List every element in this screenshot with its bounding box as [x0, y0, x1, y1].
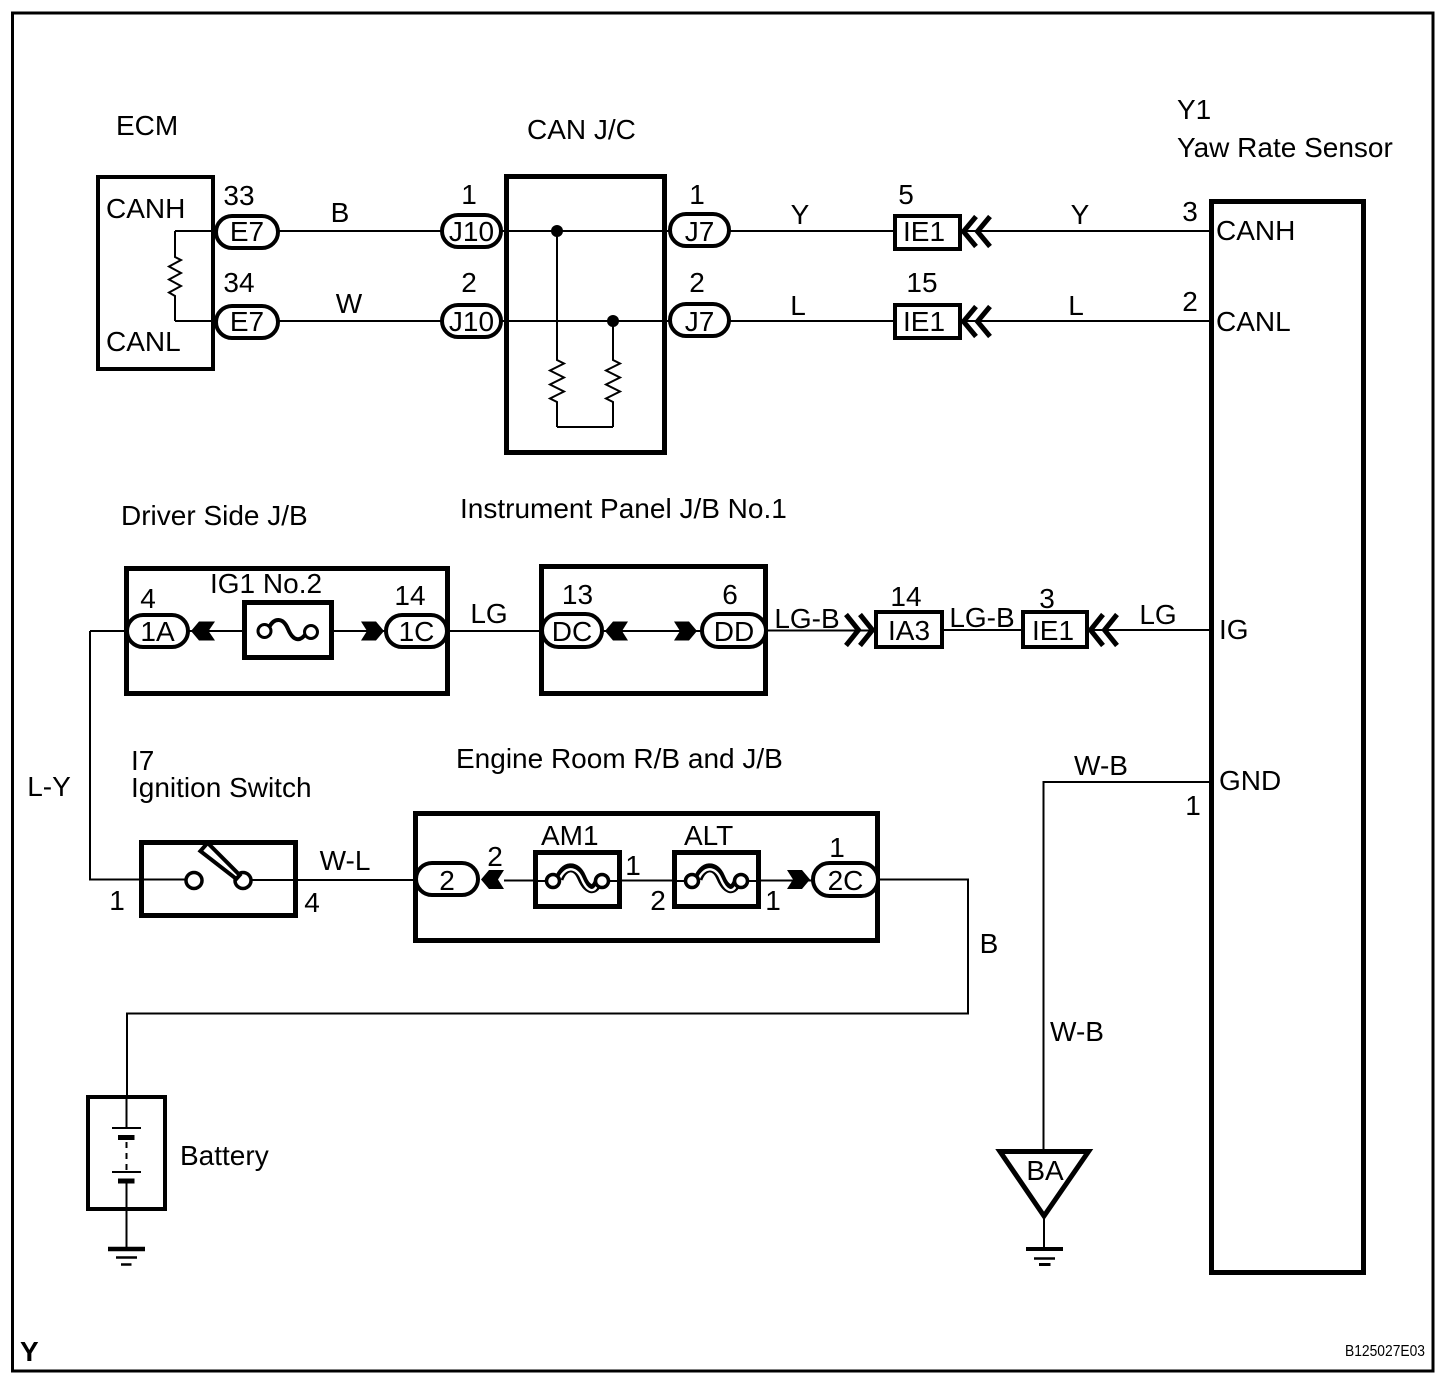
wire joining resistor bottoms [557, 426, 613, 428]
svg-text:W: W [336, 288, 363, 319]
switch contact circle left [186, 873, 202, 889]
engine room R/B and J/B box [416, 814, 878, 941]
battery cell symbol [112, 1097, 141, 1247]
ground connector BA triangle [1000, 1152, 1089, 1217]
wire W : E7 to J10 [278, 320, 442, 322]
svg-text:15: 15 [906, 267, 937, 298]
svg-text:W-B: W-B [1074, 750, 1128, 781]
wire W-L : switch to engine room [251, 879, 418, 881]
wire L-Y riser from 1A down to ignition switch [90, 631, 188, 880]
connector IE1 pin 3 [1023, 583, 1087, 647]
fuse IG1 No.2 box [245, 603, 332, 658]
arrow (female) pointing left at DC [605, 622, 628, 641]
svg-text:3: 3 [1039, 583, 1055, 614]
svg-text:ALT: ALT [684, 820, 733, 851]
terminating resistor 2 in CAN J/C [606, 321, 620, 427]
connector J7 pin 2 [670, 267, 729, 337]
svg-text:Battery: Battery [180, 1140, 269, 1171]
svg-text:IG: IG [1219, 614, 1249, 645]
ALT fusible link element [676, 868, 758, 890]
svg-text:CANH: CANH [106, 193, 185, 224]
svg-text:2: 2 [1182, 286, 1198, 317]
switch lever [200, 843, 239, 879]
connector 1C pin 14 [386, 580, 447, 647]
svg-text:2: 2 [650, 885, 666, 916]
svg-text:B: B [980, 928, 999, 959]
connector IA3 pin 14 [876, 581, 942, 647]
svg-text:14: 14 [890, 581, 921, 612]
svg-text:Engine Room R/B and J/B: Engine Room R/B and J/B [456, 743, 783, 774]
svg-text:1: 1 [461, 179, 477, 210]
svg-text:1: 1 [625, 850, 641, 881]
switch contact circle right [235, 873, 251, 889]
svg-text:1: 1 [765, 885, 781, 916]
wire CANH through CAN J/C [500, 230, 672, 232]
AM1 fusible link element [537, 868, 619, 890]
junction node on CANL [607, 315, 619, 327]
svg-text:Y: Y [1071, 199, 1090, 230]
svg-text:1C: 1C [399, 616, 435, 647]
wire LG : 1C to DC [447, 630, 544, 632]
connector J7 pin 1 [670, 179, 729, 247]
svg-text:DD: DD [714, 616, 754, 647]
wire BA to ground [1043, 1216, 1045, 1249]
svg-text:1: 1 [829, 832, 845, 863]
wire L : IE1 to yaw rate sensor CANL [962, 320, 1211, 322]
svg-text:L-Y: L-Y [27, 771, 71, 802]
svg-text:34: 34 [223, 267, 254, 298]
svg-text:L: L [790, 290, 806, 321]
svg-text:13: 13 [562, 579, 593, 610]
wire to AM1 [504, 880, 537, 882]
svg-text:1: 1 [1185, 790, 1201, 821]
svg-text:Y1: Y1 [1177, 94, 1211, 125]
wire L : J7 to IE1 [729, 320, 895, 322]
connector DD pin 6 [702, 579, 766, 647]
svg-text:LG-B: LG-B [949, 602, 1014, 633]
wire W-B : yaw GND down to BA [1044, 782, 1212, 1151]
svg-text:LG: LG [470, 598, 507, 629]
svg-text:4: 4 [304, 887, 320, 918]
connector DC pin 13 [542, 579, 602, 647]
Driver Side J/B box [127, 569, 448, 694]
connector J10 pin 2 [442, 267, 501, 337]
svg-text:GND: GND [1219, 765, 1281, 796]
resistor inside ECM (terminating) [169, 231, 181, 321]
wire B : 2C to battery [127, 880, 968, 1099]
svg-text:E7: E7 [230, 216, 264, 247]
svg-text:B125027E03: B125027E03 [1345, 1343, 1425, 1360]
svg-text:Yaw Rate Sensor: Yaw Rate Sensor [1177, 132, 1393, 163]
yaw rate sensor box Y1 [1212, 202, 1364, 1273]
arrow (male) pointing right at DD [674, 622, 697, 641]
connector J10 pin 1 [442, 179, 501, 247]
svg-text:J10: J10 [449, 306, 494, 337]
ECM box [98, 177, 213, 369]
svg-text:CANL: CANL [1216, 306, 1291, 337]
wire B : E7 to J10 [278, 230, 442, 232]
svg-text:ECM: ECM [116, 110, 178, 141]
svg-text:J7: J7 [685, 216, 715, 247]
wire from L-Y riser to 1A [90, 630, 130, 632]
wire Y : J7 to IE1 [729, 230, 895, 232]
arrow (male) pointing right at 2C [787, 870, 810, 889]
wire CANH stub inside ECM [175, 230, 230, 232]
svg-text:2: 2 [461, 267, 477, 298]
svg-text:L: L [1068, 290, 1084, 321]
connector IE1 pin 15 [895, 267, 960, 338]
connector 2 oval [416, 863, 478, 896]
svg-text:2: 2 [439, 865, 455, 896]
svg-text:IE1: IE1 [1032, 615, 1074, 646]
svg-text:Ignition Switch: Ignition Switch [131, 772, 312, 803]
wire LG : IE1 to yaw IG pin [1087, 629, 1211, 631]
svg-text:33: 33 [223, 180, 254, 211]
svg-text:2: 2 [689, 267, 705, 298]
connector E7 pin 34 [216, 267, 278, 338]
fuse element symbol [258, 620, 318, 639]
svg-text:W-L: W-L [320, 845, 371, 876]
male-male arrows before IA3 [846, 615, 873, 646]
svg-text:AM1: AM1 [541, 820, 599, 851]
wire AM1 to ALT [619, 880, 676, 882]
svg-text:3: 3 [1182, 196, 1198, 227]
svg-text:1A: 1A [140, 616, 175, 647]
svg-text:5: 5 [898, 179, 914, 210]
wire LG-B : DD to IA3 [766, 630, 878, 632]
junction node on CANH [551, 225, 563, 237]
connector IE1 pin 5 [895, 179, 960, 249]
svg-text:LG: LG [1139, 599, 1176, 630]
svg-text:2C: 2C [828, 865, 864, 896]
wire LG-B : IA3 to IE1 [942, 629, 1023, 631]
svg-text:LG-B: LG-B [774, 603, 839, 634]
svg-text:IA3: IA3 [888, 615, 930, 646]
svg-text:6: 6 [722, 579, 738, 610]
svg-text:J7: J7 [685, 306, 715, 337]
terminating resistor 1 in CAN J/C [550, 231, 564, 427]
svg-text:CAN J/C: CAN J/C [527, 114, 636, 145]
svg-text:14: 14 [394, 580, 425, 611]
svg-text:Y: Y [791, 199, 810, 230]
arrow (female) pointing left after 2 [481, 870, 504, 889]
battery box [88, 1097, 165, 1209]
svg-text:4: 4 [140, 583, 156, 614]
svg-text:CANH: CANH [1216, 215, 1295, 246]
connector E7 pin 33 [216, 180, 278, 248]
svg-text:IE1: IE1 [903, 216, 945, 247]
svg-text:J10: J10 [449, 216, 494, 247]
wire DC to DD inside J/B [600, 630, 704, 632]
Instrument Panel J/B No.1 box [542, 567, 766, 694]
wire ALT to 2C [758, 880, 815, 882]
male-female arrows on IG wire [1091, 615, 1118, 646]
svg-text:Driver Side J/B: Driver Side J/B [121, 500, 308, 531]
svg-text:DC: DC [552, 616, 592, 647]
fusible link ALT box [675, 853, 759, 907]
svg-text:IE1: IE1 [903, 306, 945, 337]
svg-text:W-B: W-B [1050, 1016, 1104, 1047]
wire fuse to 1C [331, 630, 386, 632]
svg-text:B: B [331, 197, 350, 228]
connector 1A pin 4 [127, 583, 188, 647]
wire CANL stub inside ECM [175, 320, 230, 322]
svg-text:2: 2 [487, 841, 503, 872]
wire 1A to fuse [188, 630, 244, 632]
svg-text:BA: BA [1026, 1155, 1064, 1186]
male-female arrows on CANL wire [964, 307, 991, 337]
arrow (female) pointing left at 1A [191, 622, 215, 641]
arrow (male) pointing right at 1C [361, 622, 384, 641]
ignition switch I7 box [142, 843, 296, 916]
BA ground symbol [1026, 1249, 1063, 1265]
svg-text:1: 1 [689, 179, 705, 210]
svg-text:1: 1 [109, 885, 125, 916]
svg-text:CANL: CANL [106, 326, 181, 357]
wire CANL through CAN J/C [500, 320, 672, 322]
wire Y : IE1 to yaw rate sensor CANH [962, 230, 1211, 232]
svg-text:E7: E7 [230, 306, 264, 337]
svg-text:Y: Y [20, 1336, 39, 1367]
male-female arrows on CANH wire [964, 217, 991, 247]
CAN J/C box [507, 177, 665, 453]
connector 2C pin 1 [813, 832, 878, 896]
svg-text:Instrument Panel J/B No.1: Instrument Panel J/B No.1 [460, 493, 787, 524]
fusible link AM1 box [536, 853, 620, 907]
svg-text:IG1 No.2: IG1 No.2 [210, 568, 322, 599]
battery ground symbol [108, 1249, 145, 1265]
